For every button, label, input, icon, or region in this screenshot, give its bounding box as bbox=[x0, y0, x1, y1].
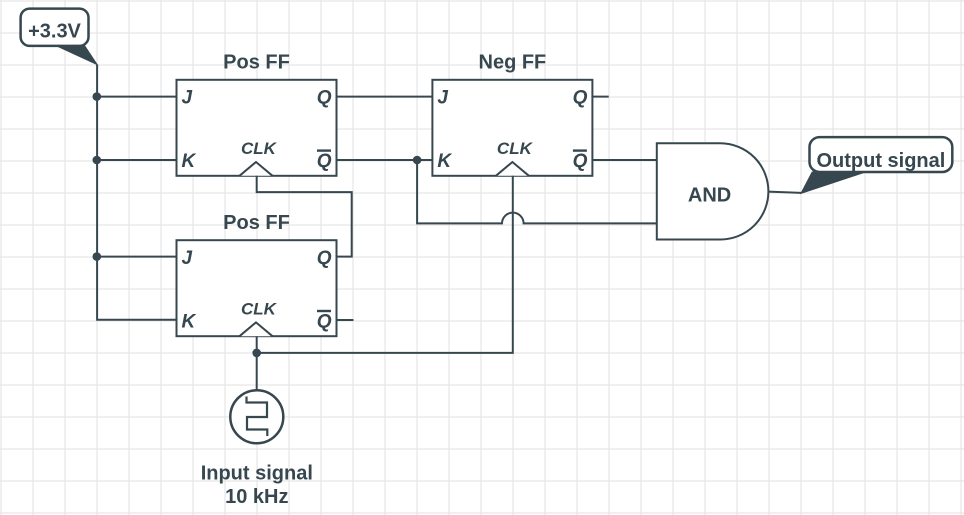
wire: +3.3V rail vertical with branch to FF2 K bbox=[97, 65, 176, 320]
flip-flop FF1 box (Pos FF top) bbox=[177, 52, 337, 176]
svg-text:AND: AND bbox=[688, 185, 731, 207]
svg-text:Output signal: Output signal bbox=[816, 150, 945, 172]
junction dot on FF1 Qbar wire bbox=[413, 156, 422, 165]
wire: FF1 Qbar to FF3 K bbox=[337, 159, 433, 161]
svg-text:10 kHz: 10 kHz bbox=[225, 486, 288, 508]
wire: FF2 Q up to FF1 CLK bbox=[257, 176, 352, 257]
svg-text:Q: Q bbox=[317, 88, 332, 109]
svg-text:CLK: CLK bbox=[241, 139, 278, 158]
wire: rail to FF1 J bbox=[97, 96, 176, 98]
junction dot on rail at FF2 J bbox=[93, 252, 102, 261]
svg-text:Input signal: Input signal bbox=[201, 463, 313, 485]
junction dot on clock net bbox=[252, 349, 261, 358]
wire: FF2 CLK down to clock source bbox=[256, 336, 258, 390]
wire: rail to FF1 K bbox=[97, 159, 176, 161]
flip-flop FF2 box (Pos FF bottom) bbox=[177, 212, 337, 336]
svg-text:Pos FF: Pos FF bbox=[223, 212, 290, 234]
clock source circle (input signal generator) bbox=[230, 390, 283, 443]
svg-text:K: K bbox=[182, 151, 197, 172]
output callout Output signal bbox=[801, 137, 952, 193]
svg-text:K: K bbox=[182, 311, 197, 332]
wire: FF3 Qbar to AND upper input bbox=[592, 159, 656, 161]
svg-text:+3.3V: +3.3V bbox=[28, 20, 81, 42]
svg-text:Q: Q bbox=[317, 248, 332, 269]
svg-text:Q: Q bbox=[317, 311, 332, 332]
svg-text:CLK: CLK bbox=[497, 139, 534, 158]
AND gate U1 bbox=[657, 143, 769, 239]
power source callout +3.3V bbox=[21, 9, 98, 65]
wire: rail to FF2 J bbox=[97, 256, 176, 258]
wire: clock vertical from FF3 CLK down to clock net bbox=[257, 176, 513, 353]
junction dot on rail at FF1 J bbox=[93, 92, 102, 101]
svg-text:Q: Q bbox=[573, 151, 588, 172]
wire: FF3 Q stub bbox=[592, 96, 608, 98]
wire: AND output bbox=[768, 192, 801, 193]
label: Input signal 10 kHz bbox=[201, 463, 313, 509]
junction dot on rail at FF1 K bbox=[93, 156, 102, 165]
svg-text:Neg FF: Neg FF bbox=[479, 52, 547, 74]
flip-flop FF3 box (Neg FF) bbox=[432, 52, 592, 176]
svg-text:J: J bbox=[182, 88, 193, 109]
svg-text:J: J bbox=[437, 88, 448, 109]
wire: branch from Qbar junction to AND lower input (with hop over clock line) bbox=[417, 160, 657, 223]
svg-text:Q: Q bbox=[317, 151, 332, 172]
wire: FF1 Q to FF3 J bbox=[337, 96, 433, 98]
svg-text:CLK: CLK bbox=[241, 299, 278, 318]
wire: FF2 Qbar stub bbox=[337, 319, 354, 321]
svg-text:J: J bbox=[182, 248, 193, 269]
svg-text:Pos FF: Pos FF bbox=[223, 52, 290, 74]
svg-text:Q: Q bbox=[573, 88, 588, 109]
svg-text:K: K bbox=[437, 151, 452, 172]
